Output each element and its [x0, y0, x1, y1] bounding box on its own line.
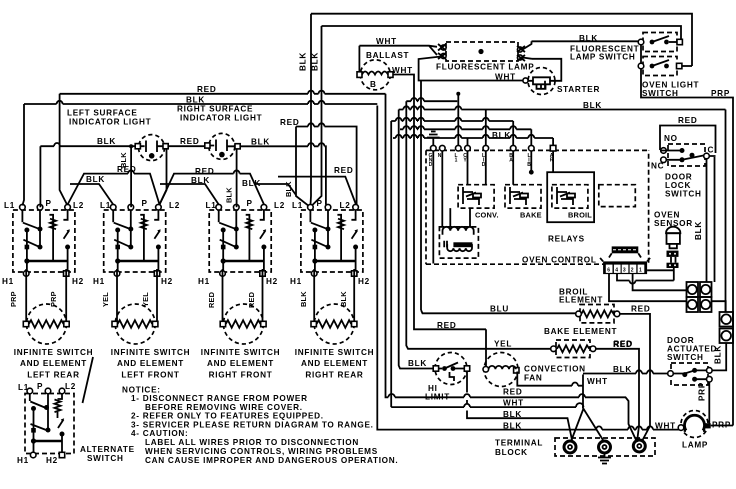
wire top BLK run to oven light switch	[311, 14, 692, 66]
svg-text:BLK: BLK	[97, 137, 116, 146]
mesh horizontal y138	[393, 137, 553, 139]
svg-text:RED: RED	[678, 116, 697, 125]
svg-text:RED: RED	[614, 340, 633, 349]
wire P feeder switch3 from right indicator	[236, 149, 238, 207]
fluorescent lamp switch	[638, 33, 682, 52]
svg-text:WHT: WHT	[655, 422, 676, 431]
svg-text:BLK: BLK	[119, 152, 128, 168]
svg-text:CONVECTION: CONVECTION	[524, 365, 586, 374]
svg-text:1- DISCONNECT RANGE FROM POWER: 1- DISCONNECT RANGE FROM POWER	[131, 394, 308, 403]
surface element right rear	[311, 304, 357, 344]
svg-text:RIGHT REAR: RIGHT REAR	[305, 371, 363, 380]
svg-text:P: P	[37, 382, 43, 391]
wire RED segment gap1	[68, 174, 160, 205]
bus hop RED over verticals	[308, 91, 325, 94]
svg-text:RED: RED	[280, 118, 299, 127]
bake element	[551, 340, 596, 358]
relay BROIL	[552, 185, 588, 208]
svg-text:YEL: YEL	[101, 292, 110, 307]
oven control mesh horizontals	[406, 100, 457, 102]
terminal block terminal 1	[564, 441, 576, 453]
broil relay solid box	[547, 172, 594, 222]
svg-text:NO: NO	[664, 134, 678, 143]
wire RED loop door lock	[660, 126, 716, 154]
svg-text:BLK: BLK	[284, 181, 293, 197]
svg-text:AND ELEMENT: AND ELEMENT	[207, 359, 274, 368]
svg-text:RED: RED	[207, 291, 216, 308]
svg-text:H1: H1	[93, 277, 105, 286]
svg-text:H2: H2	[72, 277, 84, 286]
wire between switch left terminals	[640, 45, 642, 63]
wire H drops switch4	[314, 269, 354, 321]
mesh horizontal y129	[400, 128, 531, 130]
svg-text:H2: H2	[161, 277, 173, 286]
svg-text:BLK: BLK	[613, 365, 632, 374]
oven control dashed box	[426, 150, 649, 264]
wire BLK to left indicator	[40, 145, 135, 147]
terminal block terminal 2	[599, 441, 611, 453]
terminal block terminal 3	[633, 440, 645, 452]
svg-text:H2: H2	[46, 456, 58, 465]
svg-text:L1: L1	[292, 201, 303, 210]
svg-text:4- CAUTION:: 4- CAUTION:	[131, 429, 189, 438]
svg-text:RIGHT FRONT: RIGHT FRONT	[209, 371, 273, 380]
svg-text:LEFT FRONT: LEFT FRONT	[121, 371, 179, 380]
ballast B	[357, 46, 393, 90]
wire BLK from right indicator to P4	[240, 146, 327, 207]
svg-text:WHT: WHT	[587, 377, 608, 386]
svg-text:BLK: BLK	[299, 291, 308, 307]
starter	[523, 68, 555, 95]
broil element	[576, 305, 620, 323]
wire bundle vertical BLK	[377, 106, 681, 430]
wire H1 H2 drops switch1 to element	[26, 269, 66, 321]
mesh horizontal y121	[391, 120, 513, 122]
svg-text:FLUORESCENT LAMP: FLUORESCENT LAMP	[436, 63, 534, 72]
wire ballast right terminal down (to oven control mesh)	[393, 75, 414, 327]
svg-text:L2: L2	[340, 201, 351, 210]
svg-text:RELAYS: RELAYS	[548, 235, 585, 244]
svg-text:L2: L2	[73, 201, 84, 210]
svg-text:BLK: BLK	[339, 291, 348, 307]
svg-text:LEFT SURFACE: LEFT SURFACE	[67, 109, 138, 118]
svg-text:LABEL ALL WIRES PRIOR TO DISCO: LABEL ALL WIRES PRIOR TO DISCONNECTION	[145, 438, 359, 447]
svg-text:ELEMENT: ELEMENT	[559, 296, 603, 305]
svg-text:INFINITE SWITCH: INFINITE SWITCH	[14, 348, 93, 357]
svg-text:WHT: WHT	[503, 399, 524, 408]
hi limit	[433, 353, 469, 385]
svg-text:INDICATOR LIGHT: INDICATOR LIGHT	[69, 118, 151, 127]
svg-text:TERMINAL: TERMINAL	[495, 439, 543, 448]
surface element left front	[112, 304, 158, 344]
svg-text:L1: L1	[206, 201, 217, 210]
svg-text:P: P	[317, 199, 323, 208]
svg-text:PRP: PRP	[698, 382, 707, 401]
wire RED vertical to L1 of switch 4	[296, 127, 310, 208]
svg-text:PRP: PRP	[9, 291, 18, 307]
oven light switch	[638, 57, 692, 76]
svg-text:D: D	[429, 162, 433, 168]
right surface indicator light	[205, 133, 240, 159]
wire L2 feeder switch2 from indicator	[160, 149, 167, 205]
svg-text:RED: RED	[503, 388, 522, 397]
wire RED broil element down	[620, 314, 650, 442]
wire RED to L2 switch 4	[278, 177, 356, 205]
svg-text:BLU: BLU	[490, 305, 509, 314]
svg-text:H2: H2	[358, 277, 370, 286]
infinite switch right front	[209, 204, 271, 276]
wire pin4 run	[617, 274, 674, 281]
infinite switch left rear	[13, 204, 75, 276]
svg-text:BAKE ELEMENT: BAKE ELEMENT	[544, 327, 617, 336]
svg-text:WHT: WHT	[495, 73, 516, 82]
door actuated switch	[668, 363, 712, 385]
wire PRP door switch to lamp	[708, 382, 709, 426]
wires relay1 to transformer	[450, 208, 470, 227]
svg-text:INFINITE SWITCH: INFINITE SWITCH	[295, 348, 374, 357]
convection fan	[483, 353, 519, 387]
alternate switch	[25, 388, 74, 458]
svg-text:H2: H2	[266, 277, 278, 286]
svg-text:BLK: BLK	[299, 52, 308, 71]
svg-text:L2: L2	[274, 201, 285, 210]
wire RED bus	[60, 93, 386, 95]
wire bundle vertical to RED lower	[390, 121, 392, 407]
wire BLK long run right side	[725, 110, 727, 313]
svg-text:CAN CAUSE IMPROPER AND DANGERO: CAN CAUSE IMPROPER AND DANGEROUS OPERATI…	[145, 456, 398, 465]
surface element left rear	[23, 304, 69, 344]
svg-text:RED: RED	[195, 167, 214, 176]
svg-text:3: 3	[623, 268, 626, 274]
wire PRP from oven light switch left terminal to right edge	[641, 69, 733, 426]
svg-text:BALLAST: BALLAST	[366, 51, 409, 60]
infinite switch right rear	[301, 204, 363, 276]
svg-text:BLK: BLK	[242, 179, 261, 188]
svg-text:2- REFER ONLY TO FEATURES EQUI: 2- REFER ONLY TO FEATURES EQUIPPED.	[131, 412, 324, 421]
svg-text:LIMIT: LIMIT	[425, 393, 450, 402]
wire WHT lower run	[391, 407, 583, 440]
wire second vertical from C	[714, 157, 716, 282]
svg-text:L2: L2	[169, 201, 180, 210]
svg-text:RIGHT SURFACE: RIGHT SURFACE	[177, 105, 253, 114]
svg-text:BLK: BLK	[225, 187, 234, 203]
svg-text:6: 6	[607, 268, 610, 274]
svg-text:LEFT REAR: LEFT REAR	[27, 371, 79, 380]
wire bundle vertical ballast to RED fan	[414, 326, 486, 329]
svg-text:P: P	[46, 199, 52, 208]
wire BLK from C down to connector square	[706, 159, 708, 282]
svg-text:INFINITE SWITCH: INFINITE SWITCH	[201, 348, 280, 357]
svg-text:1: 1	[639, 268, 642, 274]
svg-text:YEL: YEL	[494, 340, 512, 349]
wire lamp right to BLK switch run	[532, 40, 639, 42]
svg-text:BLK: BLK	[694, 221, 703, 240]
svg-text:CONV.: CONV.	[475, 211, 499, 220]
wire H drops switch3	[223, 269, 263, 321]
wire BLK to door actuated switch	[583, 373, 668, 375]
svg-text:FAN: FAN	[524, 374, 543, 383]
svg-text:H1: H1	[2, 277, 14, 286]
wire pin2 down to connector square top	[633, 274, 687, 291]
wire bundle vertical to hi-limit BLK	[406, 101, 550, 349]
svg-text:1: 1	[455, 158, 458, 164]
spare connector square upper	[720, 312, 734, 327]
svg-text:BLK: BLK	[191, 176, 210, 185]
svg-text:RED: RED	[437, 321, 456, 330]
surface element right front	[220, 304, 266, 344]
svg-text:SWITCH: SWITCH	[665, 190, 702, 199]
fluorescent lamp	[438, 42, 525, 61]
wire convection fan right to WHT down	[517, 372, 603, 441]
wire BLK squares to door actuated switch	[712, 343, 726, 370]
svg-text:BROIL: BROIL	[568, 211, 592, 220]
wire sensor to pin wires	[673, 268, 675, 281]
oven control connector block	[609, 246, 641, 257]
relay BAKE	[505, 185, 541, 208]
wire junction down to BLU (long vertical)	[420, 81, 422, 311]
svg-text:L1: L1	[18, 383, 29, 392]
wire feeders to switch 1	[22, 94, 67, 207]
ground symbol	[427, 132, 440, 146]
svg-text:LAMP: LAMP	[682, 441, 708, 450]
svg-text:RED: RED	[631, 305, 650, 314]
door lock switch	[660, 144, 716, 166]
svg-text:BLK: BLK	[86, 175, 105, 184]
svg-text:SWITCH: SWITCH	[87, 454, 124, 463]
wire second top run to fluorescent lamp switch	[322, 26, 682, 42]
ground symbol terminal block	[598, 453, 611, 464]
oven control terminals	[431, 145, 437, 151]
svg-text:AND ELEMENT: AND ELEMENT	[117, 359, 184, 368]
spare relay dashed box	[599, 185, 636, 207]
infinite switch left front	[104, 204, 166, 276]
svg-text:P: P	[247, 199, 253, 208]
connector square block 2x2	[687, 282, 712, 312]
svg-text:INDICATOR LIGHT: INDICATOR LIGHT	[180, 114, 262, 123]
wire RED upper to L2 of switch 4	[296, 127, 357, 208]
wire bundle vertical to BLU	[421, 310, 576, 313]
svg-text:INFINITE SWITCH: INFINITE SWITCH	[111, 348, 190, 357]
svg-text:BLK: BLK	[408, 359, 427, 368]
svg-text:2: 2	[631, 268, 634, 274]
left surface indicator light	[135, 135, 168, 161]
spare connector square lower	[720, 329, 734, 344]
connector numbered strip	[600, 258, 650, 274]
svg-text:PRP: PRP	[711, 89, 730, 98]
wire pin6 down to connector square bottom	[609, 274, 687, 302]
terminal block dashed box	[555, 438, 655, 456]
svg-text:L1: L1	[100, 201, 111, 210]
wire lamp bottom-left pin to WHT starter run	[419, 57, 523, 81]
wire PRP lamp to right edge	[711, 425, 733, 427]
svg-text:RED: RED	[180, 137, 199, 146]
oven lamp	[678, 411, 711, 438]
wire WHT ballast to lamp top pins	[359, 46, 437, 55]
oven sensor	[666, 227, 680, 268]
svg-text:BLK: BLK	[186, 96, 205, 105]
wire RED bake element down	[596, 349, 639, 442]
svg-text:STARTER: STARTER	[557, 85, 600, 94]
svg-text:BLK: BLK	[579, 34, 598, 43]
svg-text:RED: RED	[197, 85, 216, 94]
wire vertical from RED bus to L1 terminal	[457, 94, 459, 146]
svg-text:YEL: YEL	[141, 292, 150, 307]
terminal drop wires	[468, 110, 554, 146]
wire BLK bus	[24, 103, 377, 105]
wires terminals down to relays	[433, 151, 553, 264]
svg-text:BLK: BLK	[714, 345, 723, 364]
svg-text:4: 4	[615, 268, 618, 274]
wire RED segment gap2	[160, 174, 265, 205]
svg-text:LAMP SWITCH: LAMP SWITCH	[570, 53, 636, 62]
wire pin1 to sensor junction	[647, 269, 674, 271]
wire lamp right pins join	[523, 44, 532, 59]
wire vertical BLK pair from top	[309, 14, 312, 206]
wire hi-limit right to BLK lower	[467, 371, 572, 440]
svg-text:OVEN CONTROL: OVEN CONTROL	[522, 256, 597, 265]
wire P feeder switch2	[130, 146, 132, 207]
arrow line to alternate switch	[83, 357, 94, 403]
wire BLK segment gap3	[255, 184, 296, 195]
svg-text:BLOCK: BLOCK	[495, 448, 528, 457]
svg-text:L2: L2	[65, 382, 76, 391]
wire bundle vertical RED bus down to WHT	[386, 94, 638, 442]
svg-text:RED: RED	[334, 166, 353, 175]
wire RED between indicators	[168, 145, 205, 147]
wire RED vertical junction to convection fan	[485, 329, 487, 366]
svg-text:BLK: BLK	[251, 138, 270, 147]
svg-text:WHT: WHT	[376, 37, 397, 46]
svg-text:BLK: BLK	[503, 421, 522, 430]
svg-text:ALTERNATE: ALTERNATE	[80, 445, 135, 454]
wire bundle vertical to YEL	[399, 110, 433, 369]
svg-text:L1: L1	[4, 201, 15, 210]
svg-text:BAKE: BAKE	[520, 211, 542, 220]
svg-text:BLK: BLK	[492, 131, 511, 140]
svg-text:H1: H1	[17, 456, 29, 465]
svg-text:N: N	[438, 153, 442, 159]
relay CONV	[458, 185, 494, 208]
wire lamp right pins down to starter	[532, 41, 562, 81]
svg-text:WHEN SERVICING CONTROLS, WIRIN: WHEN SERVICING CONTROLS, WIRING PROBLEMS	[145, 447, 378, 456]
wire BLK segment gap2	[160, 184, 219, 205]
wire from connector block right to lower square	[712, 301, 726, 312]
svg-text:B: B	[370, 80, 377, 89]
bus hop BLK over verticals	[57, 101, 325, 104]
svg-text:H1: H1	[198, 277, 210, 286]
transformer	[439, 227, 478, 258]
wire H drops switch2	[117, 269, 157, 321]
wire BLK segment gap1	[70, 184, 113, 205]
svg-text:AND ELEMENT: AND ELEMENT	[301, 359, 368, 368]
svg-text:BLK: BLK	[311, 52, 320, 71]
svg-text:P: P	[142, 199, 148, 208]
svg-text:AND ELEMENT: AND ELEMENT	[20, 359, 87, 368]
svg-text:SWITCH: SWITCH	[667, 353, 704, 362]
svg-text:H1: H1	[290, 277, 302, 286]
